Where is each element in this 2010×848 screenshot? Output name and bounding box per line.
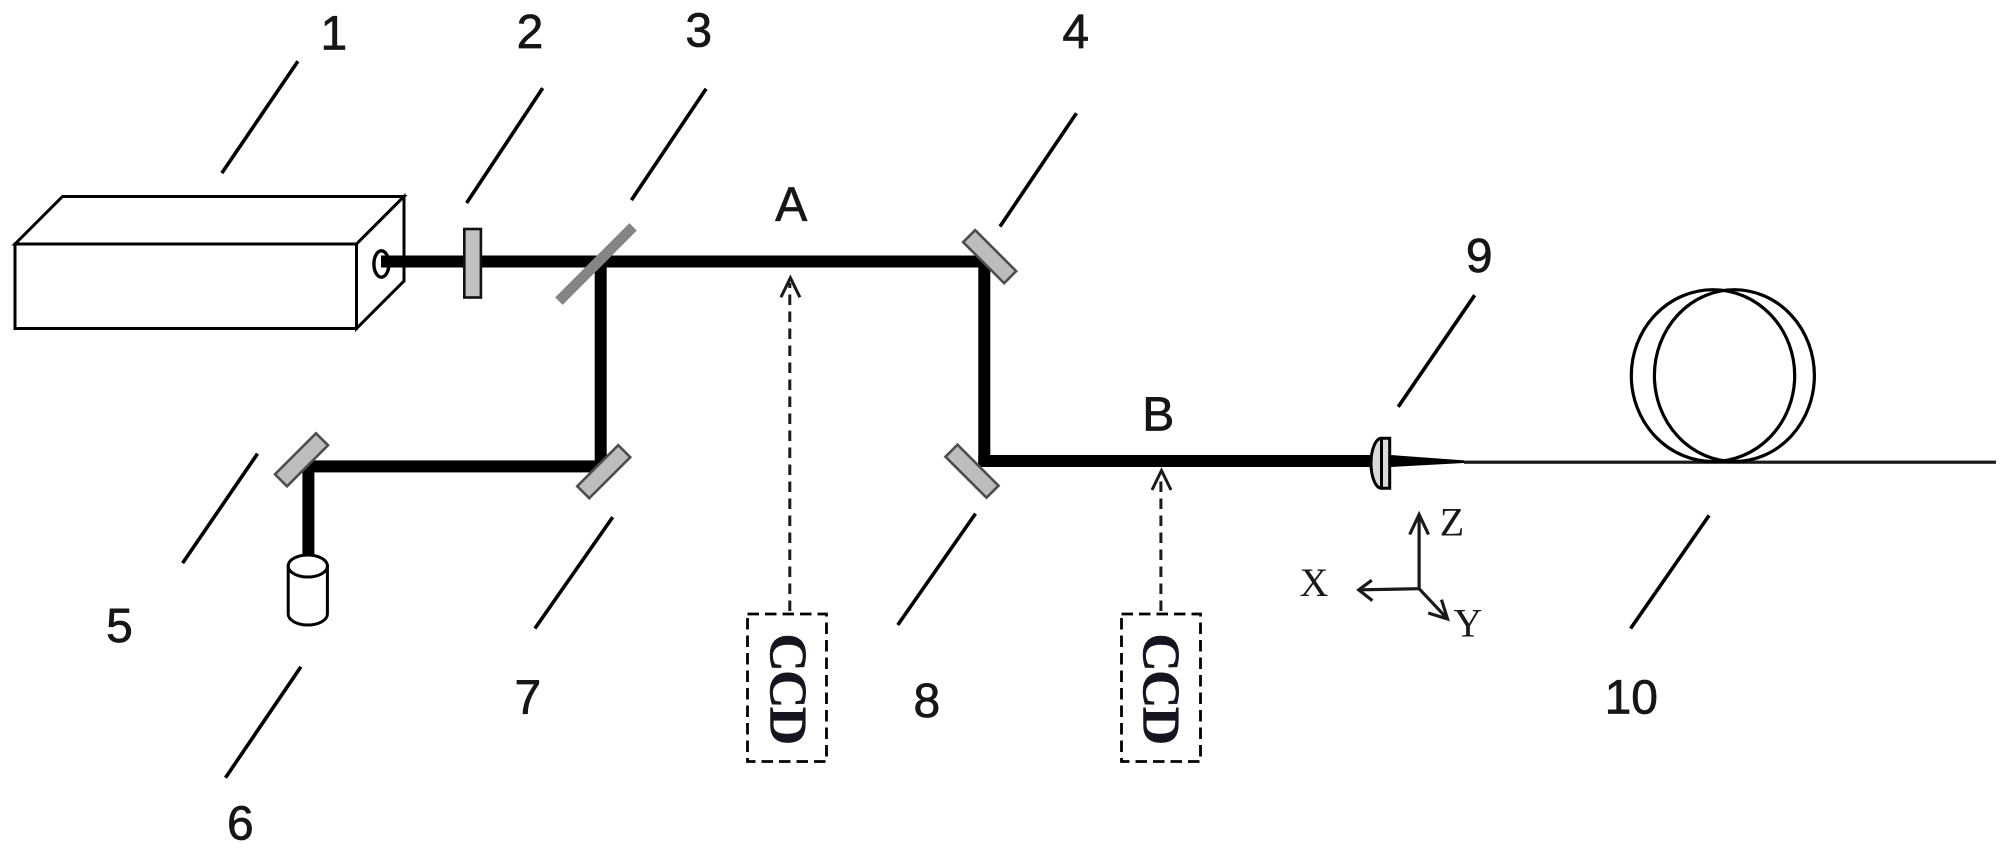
svg-text:CCD: CCD bbox=[1132, 633, 1190, 743]
laser 1 body (3D box) bbox=[15, 197, 404, 329]
svg-text:2: 2 bbox=[517, 6, 544, 59]
pointer line 4 bbox=[1000, 113, 1076, 226]
pointer line 2 bbox=[467, 88, 543, 203]
fiber coil 10 bbox=[1631, 290, 1794, 462]
fiber taper after lens 9 bbox=[1391, 455, 1464, 467]
pointer line 10 bbox=[1631, 515, 1710, 628]
svg-text:Y: Y bbox=[1454, 601, 1483, 646]
CCD box (beam B) bbox=[1122, 614, 1201, 762]
svg-text:7: 7 bbox=[514, 671, 541, 724]
beam splitter 3 bbox=[555, 223, 637, 305]
svg-text:9: 9 bbox=[1466, 230, 1493, 283]
pointer line 5 bbox=[183, 454, 258, 563]
dashed arrow from CCD to node A bbox=[788, 283, 791, 611]
svg-text:10: 10 bbox=[1605, 671, 1658, 724]
fiber line bbox=[1464, 461, 1996, 464]
lens 9 bbox=[1371, 438, 1390, 488]
wire: beam down from mirror 4 to mirror 8 bbox=[978, 256, 990, 468]
svg-text:B: B bbox=[1142, 389, 1174, 442]
dashed arrow from CCD to node B bbox=[1159, 476, 1162, 611]
pointer line 3 bbox=[631, 89, 706, 200]
Y axis bbox=[1419, 589, 1446, 618]
svg-text:1: 1 bbox=[320, 7, 347, 60]
detector cylinder 6 bbox=[288, 555, 327, 625]
pointer line 8 bbox=[898, 514, 976, 625]
CCD box (beam A) bbox=[748, 614, 827, 762]
svg-text:CCD: CCD bbox=[759, 633, 817, 743]
svg-text:Z: Z bbox=[1440, 500, 1464, 545]
pointer line 1 bbox=[222, 61, 298, 173]
pointer line 9 bbox=[1398, 295, 1475, 407]
wire: beam laser to mirror 4 (node A path) bbox=[381, 256, 991, 268]
Z axis bbox=[1417, 516, 1420, 589]
wire: beam down from splitter 3 to mirror 7 bbox=[595, 256, 607, 473]
attenuator plate 2 bbox=[464, 229, 481, 298]
coordinate axes bbox=[1359, 515, 1448, 619]
svg-text:8: 8 bbox=[914, 675, 941, 728]
svg-text:4: 4 bbox=[1062, 6, 1089, 59]
wire: beam mirror 5 to mirror 7 bbox=[303, 460, 607, 472]
svg-text:X: X bbox=[1300, 560, 1329, 605]
svg-text:A: A bbox=[775, 179, 807, 232]
svg-text:6: 6 bbox=[227, 797, 254, 848]
pointer line 7 bbox=[535, 517, 613, 628]
mirror 8 bbox=[945, 445, 998, 498]
wire: beam B from mirror 8 to lens 9 bbox=[978, 455, 1390, 467]
svg-text:3: 3 bbox=[685, 4, 712, 57]
svg-text:5: 5 bbox=[106, 600, 133, 653]
X axis bbox=[1360, 589, 1419, 590]
laser aperture bbox=[374, 251, 389, 277]
mirror 5 bbox=[275, 433, 328, 486]
pointer line 6 bbox=[226, 667, 301, 778]
mirror 4 bbox=[963, 230, 1016, 283]
mirror 7 bbox=[577, 445, 630, 498]
wire: beam down from mirror 5 to detector 6 bbox=[302, 460, 314, 557]
